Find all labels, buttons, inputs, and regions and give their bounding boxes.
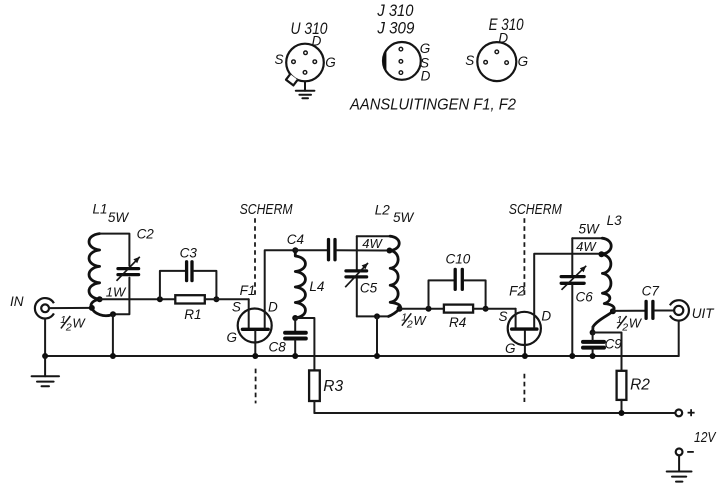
transistor pinout U310 case circle xyxy=(286,44,324,82)
label 5W of L1 xyxy=(108,210,130,225)
wire L3 bottom to C9 node xyxy=(592,327,594,333)
svg-text:D: D xyxy=(541,309,551,324)
E310 case circle xyxy=(477,42,516,81)
node F1 gate ground junction xyxy=(252,353,258,359)
label C7 xyxy=(642,284,660,299)
label L3 xyxy=(607,213,623,228)
svg-text:L4: L4 xyxy=(309,279,324,294)
svg-text:C2: C2 xyxy=(137,227,155,242)
J310 pin label G xyxy=(420,41,431,56)
capacitor C9 plates xyxy=(583,342,604,348)
svg-text:U 310: U 310 xyxy=(291,20,329,38)
svg-text:4W: 4W xyxy=(576,239,597,254)
J310 pin D dot xyxy=(399,71,403,75)
label 1/2W at IN xyxy=(60,314,86,333)
label 4W of L3 xyxy=(576,239,597,254)
wire C3 left branch xyxy=(160,271,185,299)
node L2 ground junction xyxy=(374,353,380,359)
U310 case pin dot xyxy=(303,71,307,75)
wire L1 bottom to ground bus xyxy=(112,314,114,356)
F2 pin label S xyxy=(498,309,507,324)
J310 pin label S xyxy=(420,55,429,70)
label 1W xyxy=(106,284,127,299)
svg-text:1W: 1W xyxy=(106,284,127,299)
F1 pin label G xyxy=(226,330,237,345)
inductor L2 xyxy=(388,236,400,316)
svg-text:C8: C8 xyxy=(268,340,286,355)
svg-text:L1: L1 xyxy=(92,202,107,217)
wire C4 node to capacitor C4 xyxy=(295,249,327,251)
wire C10 right branch xyxy=(464,280,486,308)
wire F2 drain to L3 4W tap xyxy=(534,254,601,328)
label L1 xyxy=(92,202,107,217)
svg-text:C6: C6 xyxy=(575,290,593,305)
inductor L4 xyxy=(295,250,305,318)
label 5W of L2 xyxy=(393,210,415,225)
shield dashed line left (lower) xyxy=(255,369,257,404)
svg-text:G: G xyxy=(518,54,529,69)
wire UIT shell to ground bus xyxy=(678,321,680,356)
label C4 xyxy=(287,232,304,247)
svg-text:S: S xyxy=(498,309,507,324)
wire L2 tank left branch (upper) xyxy=(356,236,358,269)
J310 pin G dot xyxy=(399,47,403,51)
node C9 ground junction xyxy=(590,353,596,359)
svg-text:SCHERM: SCHERM xyxy=(509,202,563,218)
F2 pin label D xyxy=(541,309,551,324)
svg-text:L3: L3 xyxy=(607,213,623,228)
label R2 xyxy=(630,377,650,394)
node F2 gate ground junction xyxy=(522,353,528,359)
node C8 ground junction xyxy=(292,353,298,359)
wire R1 to F1 source xyxy=(205,298,249,300)
capacitor C10 plates xyxy=(455,269,462,289)
svg-text:G: G xyxy=(325,55,336,70)
label C6 xyxy=(575,290,593,305)
inductor L1 xyxy=(89,234,113,316)
node 1/2W tap (IN feed) xyxy=(89,305,95,311)
svg-text:12V: 12V xyxy=(694,430,717,446)
node IN/ground junction xyxy=(42,353,48,359)
wire C8 to ground bus xyxy=(294,340,296,356)
+12V rail wire xyxy=(314,412,675,414)
label C10 xyxy=(446,251,471,266)
svg-text:R4: R4 xyxy=(449,315,466,330)
svg-text:5W: 5W xyxy=(393,210,415,225)
svg-text:C4: C4 xyxy=(287,232,304,247)
label F1 xyxy=(240,283,256,298)
svg-text:UIT: UIT xyxy=(692,306,716,321)
svg-text:D: D xyxy=(421,69,431,84)
wire L2 bottom to ground bus xyxy=(376,316,378,356)
svg-text:D: D xyxy=(312,34,322,49)
node R1/C3 left junction xyxy=(157,296,163,302)
C5 trimmer arrow xyxy=(345,263,368,287)
label R3 xyxy=(323,378,343,395)
label L2 xyxy=(375,203,391,218)
shield dashed line right (lower) xyxy=(523,374,525,402)
wire R3 to +12V rail xyxy=(313,401,315,413)
svg-text:G: G xyxy=(505,341,516,356)
wire L4 node to R3 xyxy=(295,318,314,370)
wire L3 tank top xyxy=(572,237,602,239)
U310 pin D dot xyxy=(304,51,308,55)
svg-text:L2: L2 xyxy=(375,203,391,218)
ground bus wire xyxy=(45,355,679,357)
node L3 ground junction xyxy=(569,353,575,359)
wire R4 to F2 source xyxy=(473,308,515,310)
wire F1 gate to ground bus xyxy=(254,331,256,356)
svg-text:J 309: J 309 xyxy=(376,19,414,37)
U310 pin S dot xyxy=(292,60,296,64)
J310 pin S dot xyxy=(399,60,403,64)
ground symbol right xyxy=(667,455,692,481)
label 1/2W at L2 xyxy=(401,312,427,331)
wire R2 to +12V rail xyxy=(621,400,623,413)
label R4 xyxy=(449,315,466,330)
capacitor C8 plates xyxy=(285,333,306,339)
wire L2 tank left branch (lower) xyxy=(356,278,358,316)
U310 ground xyxy=(296,81,315,98)
label R1 xyxy=(184,307,201,322)
shield dashed line left (upper) xyxy=(254,218,256,297)
resistor R3 xyxy=(309,370,320,401)
wire 1W tap to R1 xyxy=(100,298,176,300)
E310 pin label S xyxy=(465,53,474,68)
svg-text:S: S xyxy=(232,299,241,314)
wire IN to L1 tap xyxy=(49,307,92,309)
label C9 xyxy=(605,337,623,352)
node 1W tap xyxy=(97,296,103,302)
terminal + xyxy=(675,410,682,417)
transistor F2 xyxy=(508,309,541,345)
label 5W of L3 xyxy=(578,222,600,237)
wire C2 bottom to L1 bottom xyxy=(113,278,129,315)
label IN xyxy=(10,294,24,309)
node L2 4W tap xyxy=(387,248,393,254)
label minus xyxy=(687,451,694,453)
J310 pin label D xyxy=(421,69,431,84)
svg-text:5W: 5W xyxy=(108,210,130,225)
U310 pin label G xyxy=(325,55,336,70)
node L2 bottom junction xyxy=(374,313,380,319)
svg-text:R1: R1 xyxy=(184,307,201,322)
F1 pin label S xyxy=(232,299,241,314)
resistor R4 xyxy=(444,305,473,313)
wire C7 to UIT xyxy=(655,310,675,312)
ground symbol left xyxy=(32,356,59,386)
node L1 ground junction xyxy=(110,353,116,359)
label L4 xyxy=(309,279,324,294)
caption AANSLUITINGEN F1, F2 xyxy=(349,97,516,114)
wire L3 tank left branch (lower) to ground bus xyxy=(571,285,573,356)
capacitor C2 (trimmer) plates xyxy=(118,269,139,275)
transistor pinout J309 label xyxy=(376,19,414,37)
label SCHERM right xyxy=(509,202,563,218)
label C3 xyxy=(180,245,198,260)
wire L2 tank bottom xyxy=(357,315,389,317)
capacitor C6 (trimmer) plates xyxy=(561,277,584,284)
resistor R1 xyxy=(175,295,205,303)
svg-text:F2: F2 xyxy=(509,283,525,298)
node L2 1/2W tap xyxy=(397,306,403,312)
svg-text:D: D xyxy=(268,299,278,314)
wire L1 top to C2 branch xyxy=(100,234,130,266)
label C8 xyxy=(268,340,286,355)
E310 pin S dot xyxy=(484,60,488,64)
wire C3 right branch xyxy=(194,271,217,299)
svg-text:G: G xyxy=(420,41,431,56)
svg-text:C3: C3 xyxy=(180,245,198,260)
node L3 1/2W tap xyxy=(610,308,616,314)
wire L2 tap to R4 xyxy=(400,308,444,310)
node L1 bottom xyxy=(110,311,116,317)
svg-text:5W: 5W xyxy=(578,222,600,237)
svg-text:C7: C7 xyxy=(642,284,660,299)
E310 pin label D xyxy=(498,31,508,46)
svg-text:F1: F1 xyxy=(240,283,256,298)
J310 case flat (black crescent) xyxy=(383,50,386,72)
svg-text:S: S xyxy=(465,53,474,68)
transistor pinout U310 label xyxy=(291,20,329,38)
shield dashed line right (upper) xyxy=(523,218,525,296)
C2 trimmer arrow xyxy=(117,257,140,281)
node R1/C3 right junction xyxy=(213,296,219,302)
label F2 xyxy=(509,283,525,298)
connector IN xyxy=(35,298,54,318)
svg-text:C10: C10 xyxy=(446,251,471,266)
terminal - xyxy=(676,449,683,456)
E310 pin label G xyxy=(518,54,529,69)
node C4 junction xyxy=(292,247,298,253)
wire C4 to L2 4W tap xyxy=(337,249,390,251)
label UIT xyxy=(692,306,716,321)
node C9 junction xyxy=(590,330,596,336)
inductor L3 xyxy=(593,238,615,332)
node R4/C10 right junction xyxy=(483,306,489,312)
wire L3 tap to C7 xyxy=(613,310,645,312)
capacitor C5 (trimmer) plates xyxy=(346,271,367,277)
svg-text:R2: R2 xyxy=(630,377,650,394)
svg-text:D: D xyxy=(498,31,508,46)
label C5 xyxy=(360,280,378,295)
svg-text:G: G xyxy=(226,330,237,345)
J310/J309 case circle xyxy=(383,42,421,80)
wire C9 top lead xyxy=(592,333,594,341)
U310 pin label D xyxy=(312,34,322,49)
wire L2 tank top xyxy=(357,235,390,237)
F2 pin label G xyxy=(505,341,516,356)
label + xyxy=(688,409,695,416)
svg-text:AANSLUITINGEN F1, F2: AANSLUITINGEN F1, F2 xyxy=(349,97,516,114)
wire C9 to ground bus xyxy=(592,349,594,356)
label 1/2W at L3 xyxy=(617,314,643,333)
C6 trimmer arrow xyxy=(562,266,587,290)
node L4 bottom junction xyxy=(292,315,298,321)
transistor pinout E310 label xyxy=(489,16,525,34)
wire L3 tank left branch (upper) xyxy=(571,238,573,275)
node L3 4W tap xyxy=(599,251,605,257)
wire L4 to C8 xyxy=(294,318,296,331)
transistor pinout J310 label xyxy=(377,2,415,20)
E310 pin G dot xyxy=(505,61,509,65)
label 12V xyxy=(694,430,717,446)
F1 pin label D xyxy=(268,299,278,314)
label C2 xyxy=(137,227,155,242)
svg-text:C5: C5 xyxy=(360,280,378,295)
U310 pin label S xyxy=(274,52,283,67)
connector UIT xyxy=(670,300,689,320)
wire IN shell to ground bus xyxy=(44,319,46,357)
svg-text:J 310: J 310 xyxy=(377,2,415,20)
node R2 rail junction xyxy=(619,410,625,416)
capacitor C4 plates xyxy=(329,240,336,260)
wire C10 left branch xyxy=(429,280,454,308)
capacitor C3 plates xyxy=(187,262,192,281)
node R4/C10 left junction xyxy=(426,306,432,312)
svg-text:C9: C9 xyxy=(605,337,623,352)
wire F2 gate to ground bus xyxy=(524,331,526,356)
svg-text:4W: 4W xyxy=(362,236,383,251)
label SCHERM left xyxy=(240,202,294,218)
U310 pin G dot xyxy=(313,60,317,64)
svg-text:R3: R3 xyxy=(323,378,343,395)
capacitor C7 plates xyxy=(646,301,653,318)
U310 case tab xyxy=(286,74,298,85)
wire F1 drain to C4 node xyxy=(265,250,296,327)
transistor F1 xyxy=(238,299,272,342)
wire C9 node to R2 xyxy=(593,333,622,372)
E310 pin D dot xyxy=(495,50,499,54)
label 4W of L2 xyxy=(362,236,383,251)
resistor R2 xyxy=(617,371,627,400)
svg-text:SCHERM: SCHERM xyxy=(240,202,294,218)
svg-text:IN: IN xyxy=(10,294,24,309)
svg-text:S: S xyxy=(274,52,283,67)
